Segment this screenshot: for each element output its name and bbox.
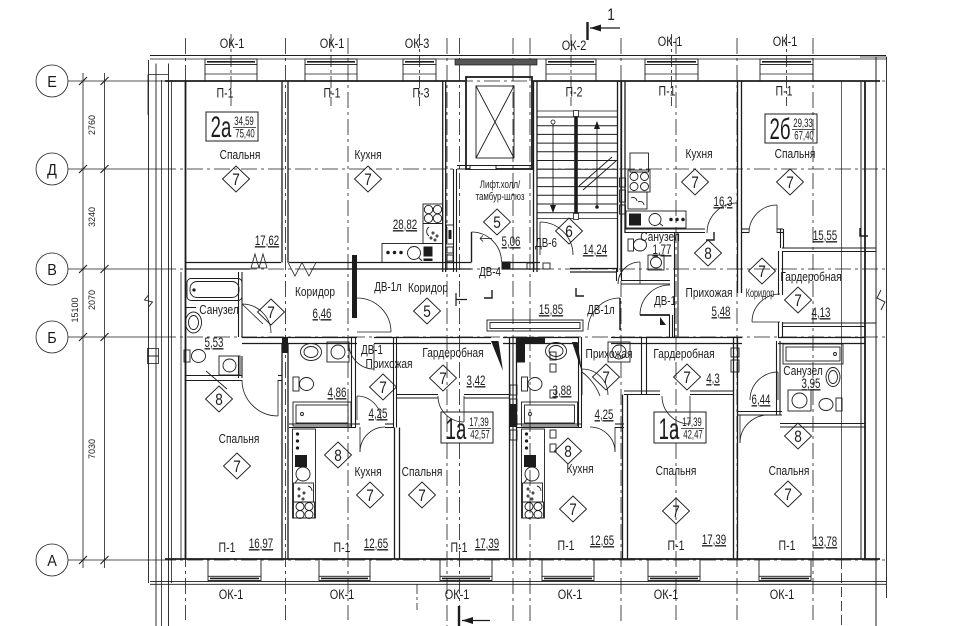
- svg-text:6,46: 6,46: [313, 307, 332, 322]
- svg-text:П-1: П-1: [558, 538, 575, 554]
- shaft bottom wall: [457, 165, 533, 167]
- axis circle A: [36, 544, 68, 576]
- svg-text:Коридор: Коридор: [295, 285, 335, 299]
- svg-text:7: 7: [784, 486, 792, 505]
- svg-text:5,53: 5,53: [205, 336, 224, 351]
- wall between bedroom 2a and kitchen 2a: [281, 81, 283, 263]
- svg-text:Спальня: Спальня: [402, 465, 443, 479]
- washer in hallway 2: [608, 342, 630, 362]
- svg-text:7: 7: [683, 369, 691, 388]
- lift door opening: [470, 166, 496, 169]
- svg-text:7: 7: [379, 379, 387, 398]
- window OK-1 bottom 5: [647, 559, 649, 576]
- svg-text:4,25: 4,25: [595, 408, 614, 423]
- svg-text:7: 7: [794, 292, 802, 311]
- dim line total: [82, 73, 84, 568]
- door DV-6 stairs: [539, 222, 541, 255]
- svg-text:Спальня: Спальня: [656, 464, 697, 478]
- stair walk line right flight: [596, 122, 598, 207]
- svg-text:В: В: [47, 261, 57, 279]
- svg-text:П-1: П-1: [659, 83, 676, 99]
- bathroom1 washer: [327, 342, 349, 362]
- interior walls: [186, 81, 877, 560]
- stair walk line left flight: [551, 120, 555, 124]
- stair flight steps: [537, 117, 617, 213]
- kitchen 2a counter: [382, 244, 443, 263]
- axis circle B: [36, 321, 68, 353]
- svg-text:4,13: 4,13: [812, 306, 831, 321]
- thick wall black fills: [510, 404, 517, 427]
- prihozhaya 1 bottom wall with kitchen door: [356, 423, 360, 425]
- svg-text:ДВ-1л: ДВ-1л: [374, 281, 401, 295]
- svg-text:П-1: П-1: [779, 538, 796, 554]
- vent window left facade: [148, 349, 159, 357]
- svg-text:7: 7: [672, 503, 680, 522]
- kitchen 2b bottom wall: [625, 228, 705, 230]
- bathroom1 toilet: [293, 377, 299, 391]
- bottom wall outer lines: [150, 581, 886, 583]
- dim line segments: [104, 73, 106, 568]
- svg-text:Кухня: Кухня: [354, 148, 381, 162]
- svg-text:Прихожая: Прихожая: [366, 357, 413, 371]
- svg-text:7: 7: [758, 263, 766, 282]
- svg-text:Е: Е: [47, 73, 57, 91]
- core stairs and elevator: [457, 77, 621, 272]
- door bedroom 16.97: [277, 380, 279, 416]
- svg-text:2а: 2а: [211, 111, 232, 145]
- svg-text:Кухня: Кухня: [566, 462, 593, 476]
- svg-text:Санузел: Санузел: [199, 303, 238, 317]
- svg-text:П-1: П-1: [219, 540, 236, 556]
- svg-text:7: 7: [569, 501, 577, 520]
- elevator shaft: [466, 77, 532, 169]
- svg-text:7: 7: [232, 171, 240, 190]
- svg-text:5: 5: [493, 214, 501, 233]
- svg-text:П-1: П-1: [217, 85, 234, 101]
- svg-text:8: 8: [215, 391, 223, 410]
- garderob1 bottom wall: [397, 394, 438, 396]
- door sanuzel 3.95: [777, 372, 779, 400]
- kitchen2 counter column: [522, 429, 545, 518]
- bathroom 3.95 box: [776, 341, 778, 415]
- kitchen 2b left wall: [621, 81, 623, 272]
- svg-text:Д: Д: [47, 161, 57, 179]
- svg-text:15100: 15100: [70, 297, 80, 322]
- small wall squares left: [550, 352, 556, 360]
- svg-text:Прихожая: Прихожая: [586, 347, 633, 361]
- door bathroom2: [581, 369, 583, 395]
- duct rectangle corridor: [487, 320, 583, 331]
- svg-text:4,25: 4,25: [369, 407, 388, 422]
- wall 2a zone lower / apartment 1a left: [281, 344, 283, 560]
- lift hall left wall: [453, 169, 455, 272]
- svg-text:7: 7: [691, 174, 699, 193]
- main wall apartment boundary lower right: [733, 337, 735, 560]
- apartment card 2b: [765, 113, 817, 147]
- window OK-1 bottom 6: [758, 559, 760, 576]
- stairwell right wall: [617, 81, 619, 272]
- svg-text:17,39: 17,39: [469, 417, 489, 430]
- svg-text:1а: 1а: [446, 413, 467, 447]
- corner marks corridor: [456, 293, 467, 306]
- svg-text:Коридор: Коридор: [408, 281, 448, 295]
- svg-text:3240: 3240: [87, 207, 97, 227]
- adjacent section lines right: [886, 57, 888, 598]
- svg-text:13,78: 13,78: [813, 535, 838, 550]
- svg-text:ДВ-4: ДВ-4: [479, 266, 501, 280]
- svg-text:П-1: П-1: [776, 83, 793, 99]
- svg-text:28,82: 28,82: [393, 218, 417, 233]
- kitchen 2a right wall: [442, 81, 444, 272]
- svg-text:ОК-3: ОК-3: [405, 36, 430, 52]
- door bedroom1: [463, 396, 465, 422]
- svg-text:ОК-1: ОК-1: [654, 587, 679, 603]
- svg-text:ДВ-6: ДВ-6: [535, 237, 557, 251]
- svg-text:П-1: П-1: [668, 538, 685, 554]
- svg-text:67,40: 67,40: [794, 130, 814, 143]
- door bathroom 4.86: [356, 396, 358, 420]
- svg-text:5: 5: [423, 303, 431, 322]
- svg-text:ОК-1: ОК-1: [773, 34, 798, 50]
- svg-text:17,39: 17,39: [682, 417, 702, 430]
- svg-text:6,44: 6,44: [752, 393, 771, 408]
- svg-text:ОК-1: ОК-1: [219, 587, 244, 603]
- bottom windows: [208, 559, 811, 581]
- door kitchen2: [614, 427, 616, 452]
- svg-text:А: А: [47, 552, 57, 570]
- apartment card 1a right: [654, 412, 706, 446]
- svg-text:17,39: 17,39: [475, 537, 499, 552]
- door garderob 2b: [752, 321, 780, 323]
- svg-text:П-1: П-1: [451, 540, 468, 556]
- door kitchen1: [359, 427, 361, 452]
- svg-text:7: 7: [366, 487, 374, 506]
- bottom wall inner face: [165, 558, 880, 560]
- svg-text:16,97: 16,97: [249, 537, 273, 552]
- svg-text:Б: Б: [47, 329, 56, 347]
- kitchen 2b fridge: [630, 153, 649, 172]
- svg-text:ОК-1: ОК-1: [220, 36, 245, 52]
- sanuzel 1.77 washer: [648, 255, 664, 270]
- vent boxes on walls: [447, 225, 454, 244]
- window OK-3 top: [403, 59, 436, 65]
- door bedroom2: [689, 396, 691, 424]
- svg-text:ДВ-1л: ДВ-1л: [587, 304, 614, 318]
- svg-text:15,55: 15,55: [813, 229, 838, 244]
- kitchen1 / bedroom1 wall: [394, 428, 396, 560]
- window OK-1 top 1: [205, 59, 257, 65]
- window centre dashes top: [230, 34, 232, 106]
- svg-text:12,65: 12,65: [590, 534, 615, 549]
- stair landings: [537, 110, 617, 112]
- garderob2 bottom wall: [624, 390, 660, 392]
- window OK-1 bottom 3: [439, 559, 441, 576]
- prihozhaya 2b west wall with door: [669, 315, 671, 337]
- garderob1 door black leaf: [491, 341, 503, 371]
- svg-text:Гардеробная: Гардеробная: [780, 270, 841, 284]
- door bedroom 13.78: [739, 415, 741, 443]
- svg-text:42,47: 42,47: [683, 429, 703, 442]
- svg-text:2070: 2070: [87, 290, 97, 310]
- axis circle V: [36, 253, 68, 285]
- axis circle E: [36, 65, 68, 97]
- hatched band above elevator: [455, 59, 537, 65]
- svg-text:42,57: 42,57: [470, 429, 490, 442]
- kitchen 2b module: [628, 192, 647, 209]
- svg-text:1: 1: [607, 6, 615, 25]
- svg-text:7: 7: [439, 370, 447, 389]
- vertical axis lines: [185, 38, 187, 620]
- svg-text:34,59: 34,59: [234, 116, 254, 129]
- stair stringer: [574, 117, 578, 213]
- bathroom 3.95 bathtub: [783, 344, 843, 364]
- svg-text:ОК-1: ОК-1: [558, 587, 583, 603]
- window OK-1 bottom 4: [541, 559, 543, 576]
- svg-text:Спальня: Спальня: [220, 148, 261, 162]
- kitchen2 / bedroom2 wall: [622, 395, 624, 560]
- dimension strip: [36, 65, 109, 576]
- tick marks: [79, 77, 109, 564]
- svg-text:16,3: 16,3: [714, 195, 733, 210]
- prihozhaya2 / garderob2 wall: [641, 337, 643, 394]
- bedroom 16.97 top wall: [186, 375, 243, 377]
- svg-text:3,42: 3,42: [467, 374, 486, 389]
- bathtub sanuzel 5.53: [187, 279, 242, 301]
- svg-text:Прихожая: Прихожая: [686, 286, 733, 300]
- bathroom2 sink: [546, 343, 567, 360]
- window OK-1 top 4: [760, 59, 813, 65]
- svg-text:Коридор: Коридор: [746, 287, 775, 300]
- stair break diagonals: [579, 157, 612, 186]
- svg-text:7: 7: [267, 304, 275, 323]
- svg-text:ОК-2: ОК-2: [562, 38, 587, 54]
- svg-text:ДВ-1: ДВ-1: [361, 344, 383, 358]
- svg-text:П-1: П-1: [324, 85, 341, 101]
- prihozhaya2 bottom wall with kitchen door: [615, 423, 624, 425]
- svg-text:ОК-1: ОК-1: [330, 587, 355, 603]
- svg-text:7: 7: [233, 458, 241, 477]
- svg-text:3,88: 3,88: [553, 384, 572, 399]
- elevator car: [476, 86, 514, 158]
- bathroom 3.95 sink: [826, 368, 840, 387]
- svg-text:5,48: 5,48: [712, 305, 731, 320]
- kitchen 2a module: [423, 224, 443, 244]
- top wall inner face: [165, 80, 465, 82]
- axis row B: [68, 336, 160, 338]
- kitchen 2b counter: [626, 211, 686, 228]
- bedroom 2b bottom wall: [742, 228, 749, 230]
- door entry apartment 1a right: [572, 342, 582, 372]
- svg-text:1,77: 1,77: [653, 243, 672, 258]
- window OK-1 top 2: [305, 59, 357, 65]
- kitchen 2a stove: [423, 204, 443, 224]
- right wall: [860, 81, 862, 560]
- door leaf bathroom 5.53 south: [206, 371, 227, 389]
- door sanuzel 5.53: [242, 304, 271, 333]
- door closer mark: [660, 317, 666, 325]
- sanuzel 5.53 box: [238, 272, 240, 337]
- left facade lines: [148, 60, 150, 583]
- door DV-4 lift hall: [471, 232, 473, 262]
- door kitchen 2b: [736, 203, 738, 233]
- svg-text:7: 7: [786, 174, 794, 193]
- svg-text:3,95: 3,95: [802, 377, 821, 392]
- svg-text:Гардеробная: Гардеробная: [653, 347, 714, 361]
- swing door triangles corridor top: [251, 254, 259, 268]
- svg-text:7030: 7030: [87, 439, 97, 459]
- axis row D: [68, 168, 160, 170]
- svg-text:Спальня: Спальня: [769, 464, 810, 478]
- doors: [242, 203, 868, 452]
- svg-text:П-2: П-2: [566, 84, 583, 100]
- prihozhaya1 / garderob1 wall: [393, 337, 395, 428]
- svg-text:8: 8: [794, 428, 802, 447]
- svg-text:2760: 2760: [87, 115, 97, 135]
- svg-text:П-3: П-3: [413, 85, 430, 101]
- kitchen1 counter column: [293, 429, 316, 518]
- break symbol left wall: [145, 295, 153, 307]
- svg-text:12,65: 12,65: [364, 537, 389, 552]
- door sanuzel 1.77: [639, 262, 641, 284]
- bathroom1 bathtub: [293, 402, 351, 426]
- svg-text:4,3: 4,3: [706, 372, 720, 387]
- svg-text:ОК-1: ОК-1: [445, 587, 470, 603]
- svg-text:6: 6: [565, 223, 573, 242]
- apartment card 2a: [206, 111, 258, 145]
- window OK-1 bottom 1: [207, 559, 209, 576]
- svg-text:ОК-1: ОК-1: [770, 587, 795, 603]
- svg-text:8: 8: [704, 245, 712, 264]
- washer sanuzel 5.53: [219, 356, 240, 375]
- bathroom2 box: [578, 337, 580, 427]
- svg-text:14,24: 14,24: [583, 243, 608, 258]
- door entry 2b DV-1l leaf: [619, 298, 621, 330]
- sink sanuzel 5.53: [186, 308, 196, 314]
- axis row E: [68, 80, 160, 82]
- axis row A: [68, 559, 160, 561]
- door entry apartment 1a left: [373, 344, 375, 369]
- bathroom2 bathtub: [522, 402, 578, 426]
- bathroom1 sink: [301, 344, 322, 361]
- svg-text:Гардеробная: Гардеробная: [422, 346, 483, 360]
- diamond numbers: [215, 171, 802, 522]
- stairwell left wall: [533, 81, 535, 272]
- svg-text:7: 7: [602, 369, 610, 388]
- svg-text:Лифт.холл/: Лифт.холл/: [480, 179, 521, 192]
- door entry 2a DV-1l: [357, 298, 391, 332]
- corridor 7 right wall: [778, 251, 780, 295]
- svg-text:1а: 1а: [659, 413, 680, 447]
- svg-text:75,40: 75,40: [235, 128, 255, 141]
- fixtures: [184, 153, 843, 519]
- svg-text:ОК-1: ОК-1: [320, 36, 345, 52]
- section mark 1 top: [588, 22, 621, 40]
- svg-text:8: 8: [564, 443, 572, 462]
- svg-text:7: 7: [364, 171, 372, 190]
- sanuzel 1.77 toilet: [628, 239, 634, 251]
- corridor 6.44 bottom wall: [737, 411, 782, 413]
- svg-text:Спальня: Спальня: [775, 147, 816, 161]
- svg-text:17,62: 17,62: [255, 234, 279, 249]
- svg-text:Кухня: Кухня: [685, 147, 712, 161]
- door prihozhaya 2b: [640, 314, 670, 316]
- break symbol right wall: [877, 290, 885, 310]
- svg-text:тамбур-шлюз: тамбур-шлюз: [475, 191, 525, 204]
- apartment card 1a left: [441, 412, 493, 446]
- bathroom2 toilet: [522, 377, 528, 391]
- svg-text:ОК-1: ОК-1: [658, 34, 683, 50]
- svg-text:5,06: 5,06: [502, 235, 521, 250]
- window OK-1 bottom 2: [318, 559, 320, 576]
- svg-text:8: 8: [334, 447, 342, 466]
- axis B main wall segments: [242, 337, 357, 339]
- svg-text:Кухня: Кухня: [354, 465, 381, 479]
- kitchen 2b stove: [628, 170, 650, 192]
- window OK-2 top: [546, 59, 596, 65]
- bathroom 4.86 box: [351, 337, 353, 427]
- svg-text:17,39: 17,39: [702, 533, 726, 548]
- svg-text:15,85: 15,85: [539, 303, 564, 318]
- diamonds: [206, 166, 812, 524]
- toilet sanuzel 5.53: [184, 350, 190, 362]
- left wall inner face: [185, 81, 187, 560]
- outer walls: [145, 56, 888, 626]
- bathroom 3.95 toilet: [836, 398, 842, 411]
- window OK-1 top 3: [645, 59, 698, 65]
- jamb pillar corridor: [352, 255, 357, 318]
- svg-text:7: 7: [418, 487, 426, 506]
- svg-text:ДВ-1: ДВ-1: [654, 295, 676, 309]
- sanuzel 1.77 box walls: [621, 280, 670, 282]
- garderobnaya 2b bottom wall: [783, 322, 876, 324]
- door bedroom 2b: [776, 205, 778, 233]
- bedroom 2a bottom wall: [186, 262, 282, 264]
- svg-text:4,86: 4,86: [328, 386, 347, 401]
- thick wall between apartments bottom centre: [509, 337, 511, 560]
- lift hall / stairs bottom wall: [446, 262, 472, 264]
- svg-text:Спальня: Спальня: [219, 432, 260, 446]
- svg-text:29,33: 29,33: [793, 118, 813, 131]
- top wall outer lines: [150, 55, 886, 57]
- axis circle D: [36, 153, 68, 185]
- main wall kitchen2b/bedroom2b: [737, 81, 739, 293]
- svg-text:П-1: П-1: [334, 540, 351, 556]
- section mark bottom: [459, 606, 490, 626]
- axis row V: [68, 268, 160, 270]
- bathroom 3.95 washer: [788, 390, 811, 411]
- top windows: [205, 59, 813, 81]
- svg-text:2б: 2б: [770, 113, 791, 147]
